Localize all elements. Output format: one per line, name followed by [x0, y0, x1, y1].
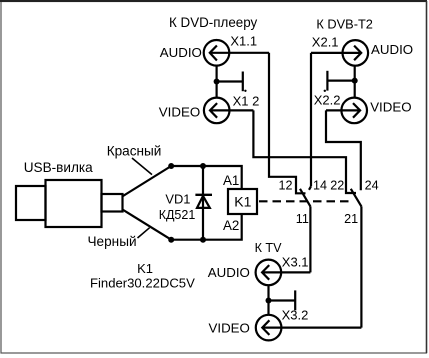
svg-text:14: 14: [313, 178, 327, 192]
svg-text:X3.1: X3.1: [282, 255, 309, 270]
svg-text:VD1: VD1: [165, 192, 190, 207]
svg-text:A2: A2: [223, 218, 239, 233]
svg-text:21: 21: [344, 212, 358, 226]
svg-text:11: 11: [296, 212, 309, 226]
svg-text:VIDEO: VIDEO: [159, 104, 200, 119]
svg-text:Черный: Черный: [88, 234, 137, 249]
svg-text:X2.2: X2.2: [314, 93, 341, 108]
svg-text:24: 24: [365, 178, 379, 192]
svg-text:X1 2: X1 2: [233, 94, 260, 109]
svg-text:VIDEO: VIDEO: [370, 99, 411, 114]
svg-text:K1: K1: [137, 261, 153, 276]
svg-text:К DVB-T2: К DVB-T2: [316, 16, 373, 31]
svg-text:AUDIO: AUDIO: [371, 42, 413, 57]
svg-text:AUDIO: AUDIO: [160, 45, 202, 60]
svg-text:Красный: Красный: [107, 144, 162, 159]
svg-text:K1: K1: [234, 193, 251, 209]
svg-text:К DVD-плееру: К DVD-плееру: [169, 15, 258, 30]
svg-text:USB-вилка: USB-вилка: [24, 160, 93, 175]
svg-text:К TV: К TV: [255, 241, 283, 255]
svg-text:КД521: КД521: [159, 208, 196, 222]
svg-text:12: 12: [278, 178, 292, 192]
svg-text:X3.2: X3.2: [282, 308, 309, 323]
svg-text:Finder30.22DC5V: Finder30.22DC5V: [90, 275, 195, 290]
svg-text:AUDIO: AUDIO: [208, 265, 250, 280]
svg-text:VIDEO: VIDEO: [209, 321, 250, 336]
svg-text:A1: A1: [223, 173, 239, 188]
svg-text:X1.1: X1.1: [230, 34, 257, 49]
svg-text:X2.1: X2.1: [312, 35, 339, 50]
svg-text:22: 22: [330, 178, 344, 192]
